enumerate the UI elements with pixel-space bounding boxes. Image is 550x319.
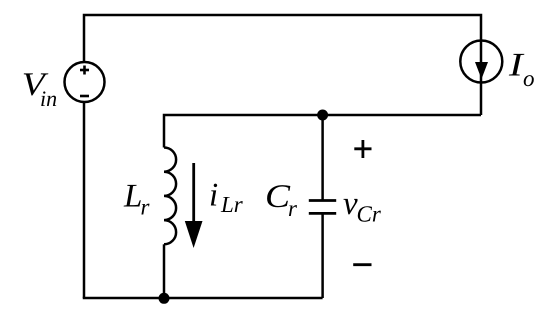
current arrow iLr <box>185 163 203 248</box>
svg-text:in: in <box>40 86 57 111</box>
wire Lr bottom lead <box>163 244 166 298</box>
wire bottom rail <box>84 297 323 298</box>
minus polarity mark of vCr <box>353 263 371 266</box>
wire middle rail (Lr top to right vertical) <box>164 115 481 148</box>
junction dot Cr/middle rail <box>317 110 328 121</box>
wire left vertical (Vin bottom to bottom rail) <box>83 102 86 298</box>
junction dot Lr/bottom rail <box>159 293 170 304</box>
wire right vertical through Io to middle rail <box>480 41 483 115</box>
wire Cr top lead <box>321 115 324 200</box>
svg-text:r: r <box>141 195 151 220</box>
svg-text:L: L <box>123 179 142 215</box>
current source Io <box>460 41 502 83</box>
wire top rail (Vin top to Io top) <box>84 15 481 62</box>
voltage source Vin <box>65 62 105 102</box>
inductor Lr coil <box>164 148 176 245</box>
svg-text:i: i <box>209 178 218 214</box>
svg-text:o: o <box>523 66 535 91</box>
svg-text:Cr: Cr <box>357 202 382 227</box>
capacitor Cr <box>309 201 336 214</box>
wire Cr bottom lead <box>321 214 324 298</box>
svg-text:Lr: Lr <box>220 192 244 217</box>
plus polarity mark of vCr <box>354 140 371 158</box>
svg-text:r: r <box>288 196 298 221</box>
